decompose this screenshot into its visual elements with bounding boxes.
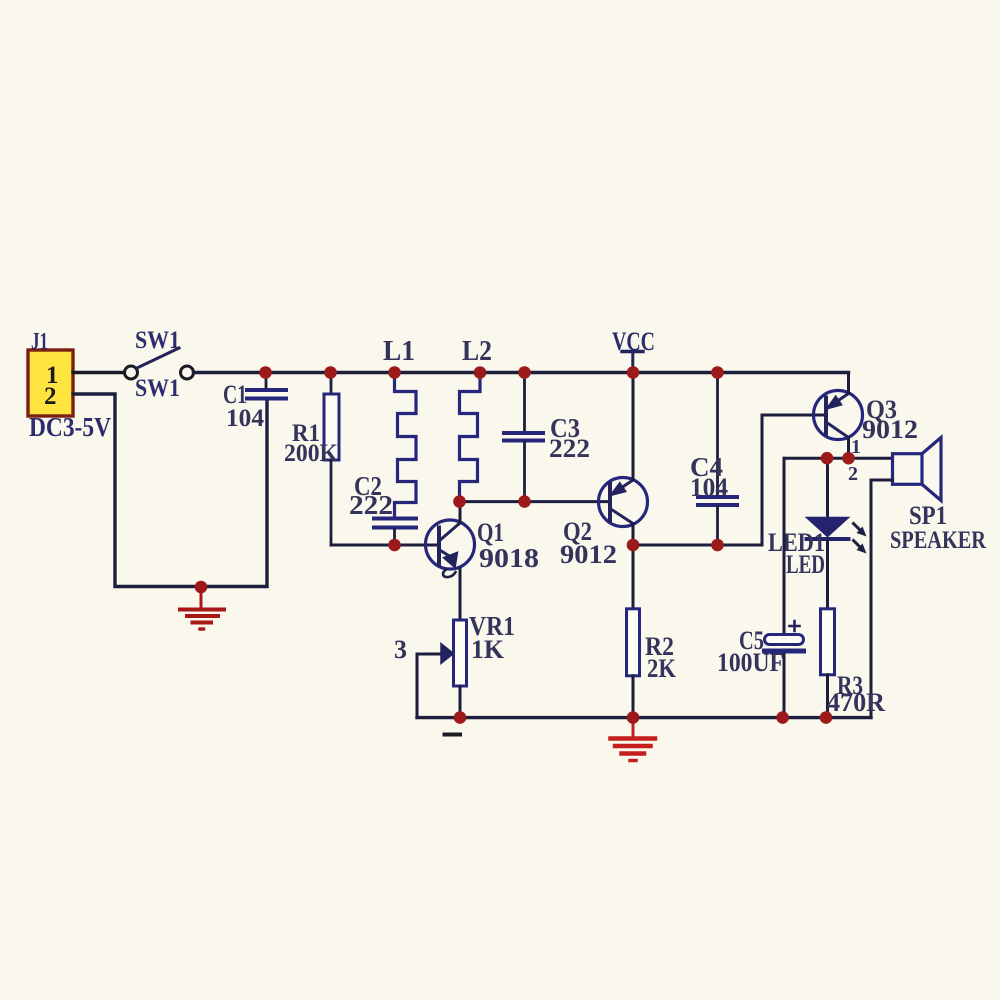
svg-text:SW1: SW1 — [135, 327, 180, 354]
svg-text:100UF: 100UF — [717, 648, 784, 677]
wire L2 bottom to Q2 base — [460, 500, 611, 503]
speaker SP1 — [871, 438, 987, 718]
transistor Q2 — [560, 478, 648, 570]
ground (left) — [180, 587, 224, 629]
VCC port — [612, 327, 655, 373]
capacitor C2 — [349, 471, 416, 545]
svg-text:222: 222 — [549, 434, 590, 463]
transistor Q3 — [814, 391, 919, 445]
transistor Q1 — [426, 518, 540, 577]
capacitor C1 — [223, 373, 286, 433]
inductor L2 — [460, 336, 493, 502]
capacitor C5 — [717, 458, 804, 717]
wire top rail SW1 to Q3 corner — [194, 371, 849, 374]
wire J1 pin1 to SW1 — [73, 371, 124, 374]
resistor R3 — [821, 609, 886, 718]
svg-text:104: 104 — [226, 405, 265, 432]
switch SW1 — [125, 327, 194, 402]
svg-text:222: 222 — [349, 490, 393, 520]
LED LED1 — [768, 458, 867, 609]
wire bottom rail — [417, 716, 871, 719]
svg-text:DC3-5V: DC3-5V — [29, 412, 111, 442]
svg-text:SPEAKER: SPEAKER — [890, 527, 987, 554]
resistor R2 — [627, 545, 677, 718]
svg-text:L2: L2 — [462, 336, 492, 367]
capacitor C3 — [504, 373, 590, 502]
wire Q2 collector node to Q3 base — [633, 415, 826, 545]
svg-text:J1: J1 — [31, 329, 48, 355]
svg-text:2K: 2K — [647, 654, 677, 683]
wire Q2 emitter up to VCC node — [632, 373, 635, 481]
connector J1 — [28, 329, 111, 442]
wire R1 bottom to Q1 base — [331, 544, 439, 547]
svg-text:L1: L1 — [383, 336, 415, 367]
svg-text:104: 104 — [690, 473, 728, 502]
wire Q3 emitter to rail corner — [847, 373, 850, 394]
wire Q1 collector up to node — [459, 502, 462, 523]
svg-text:SW1: SW1 — [135, 375, 180, 402]
wire Q2 collector down to node — [632, 524, 635, 546]
ground (right) — [611, 718, 656, 761]
resistor R1 — [284, 373, 339, 546]
svg-text:2: 2 — [848, 463, 858, 485]
wire Q1 emitter down to VR1 — [459, 569, 462, 620]
svg-text:3: 3 — [394, 635, 407, 664]
svg-text:470R: 470R — [827, 688, 885, 717]
potentiometer VR1 — [394, 611, 515, 735]
svg-text:9012: 9012 — [560, 540, 617, 569]
wire Q3 collector down to speaker node, pin label 1 — [847, 438, 850, 459]
capacitor C4 — [690, 373, 737, 546]
svg-text:2: 2 — [44, 383, 57, 410]
svg-text:LED: LED — [786, 550, 825, 579]
svg-text:9018: 9018 — [479, 543, 539, 573]
junction dots — [195, 366, 855, 724]
svg-text:1K: 1K — [471, 635, 505, 664]
svg-text:9012: 9012 — [862, 415, 918, 444]
inductor L1 — [383, 336, 416, 518]
wire J1 pin2 down-around to ground rail — [73, 394, 267, 587]
svg-text:SP1: SP1 — [909, 501, 947, 530]
wire C5 corner to speaker — [785, 457, 893, 460]
svg-text:200K: 200K — [284, 440, 339, 467]
